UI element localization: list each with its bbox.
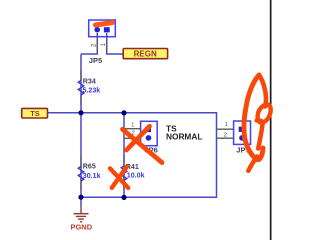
svg-text:1: 1	[225, 122, 228, 128]
svg-text:30.1k: 30.1k	[83, 172, 101, 180]
svg-text:R65: R65	[83, 163, 96, 171]
svg-text:JP5: JP5	[89, 56, 102, 65]
svg-text:1: 1	[131, 122, 134, 128]
svg-text:2: 2	[224, 132, 227, 138]
svg-text:REGN: REGN	[134, 50, 157, 59]
svg-text:TS: TS	[30, 109, 40, 118]
svg-text:NORMAL: NORMAL	[166, 132, 202, 142]
svg-text:R34: R34	[83, 78, 96, 86]
svg-text:10.0k: 10.0k	[127, 171, 145, 179]
svg-text:PGND: PGND	[70, 223, 92, 232]
svg-text:5.23k: 5.23k	[83, 87, 101, 95]
